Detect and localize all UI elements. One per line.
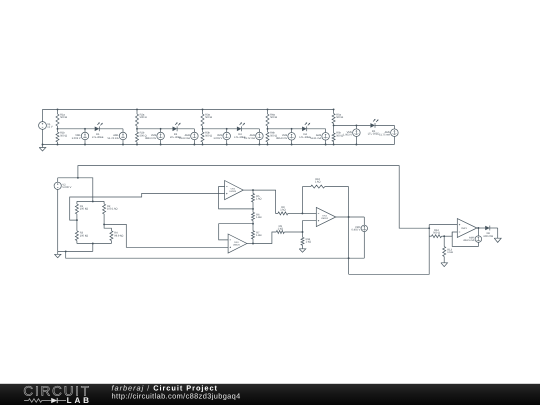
wire OA4 feedback up — [301, 187, 303, 214]
voltmeter VM4 — [291, 129, 293, 133]
resistor R5 — [252, 190, 254, 193]
resistor R4b — [267, 129, 269, 132]
svg-text:LM324: LM324 — [321, 217, 328, 220]
voltage source V1 — [42, 109, 44, 121]
node chain mid1 — [252, 208, 254, 210]
svg-text:CMP1: CMP1 — [461, 227, 468, 230]
svg-text:1 kΩ: 1 kΩ — [256, 234, 261, 237]
svg-text:454.5 mA: 454.5 mA — [463, 239, 474, 242]
diode D6 — [485, 226, 490, 231]
node bridge top — [92, 200, 94, 202]
svg-text:LAB: LAB — [67, 396, 92, 405]
svg-text:LM324: LM324 — [233, 244, 240, 247]
wire bridge bottom bar — [77, 243, 112, 245]
svg-text:12 V: 12 V — [47, 126, 53, 129]
wire chain top to R8 — [253, 190, 278, 213]
resistor R9 — [276, 231, 284, 234]
op-amp OA2 — [225, 181, 244, 200]
wire OA2 feedback — [219, 187, 253, 209]
svg-text:500 Ω: 500 Ω — [433, 232, 440, 235]
svg-text:1 kΩ: 1 kΩ — [447, 251, 452, 254]
svg-text:OA3: OA3 — [234, 241, 239, 244]
wire lower link to comparator — [349, 225, 430, 275]
svg-text:0.455 V: 0.455 V — [351, 229, 360, 232]
svg-text:LTL-30EE: LTL-30EE — [368, 132, 380, 135]
wire bottom rail — [43, 144, 395, 146]
logo circuit line with resistor and diode — [24, 399, 51, 403]
node bridge bottom — [92, 243, 94, 245]
svg-text:1 kΩ: 1 kΩ — [306, 241, 311, 244]
ammeter AM2 — [193, 129, 195, 133]
wire bridge right to op-amp OA3 — [104, 224, 228, 247]
svg-text:600 mW: 600 mW — [483, 235, 493, 238]
svg-text:LM324: LM324 — [229, 190, 236, 193]
svg-text:1 kΩ: 1 kΩ — [315, 181, 320, 184]
svg-text:5.000 V: 5.000 V — [62, 186, 71, 189]
voltage source V2 — [54, 182, 61, 189]
node chain top — [252, 189, 254, 191]
node OA4 plus — [302, 231, 304, 233]
resistor R2 — [103, 201, 105, 204]
voltmeter VM2 — [160, 129, 162, 133]
ammeter AM4 — [325, 129, 327, 133]
svg-text:1 kΩ: 1 kΩ — [256, 197, 261, 200]
svg-text:1 kΩ: 1 kΩ — [278, 227, 283, 230]
node bridge left — [76, 219, 78, 221]
ground — [302, 245, 304, 249]
node ground bus — [65, 250, 67, 252]
svg-text:500 Ω: 500 Ω — [140, 116, 147, 119]
node bridge right — [103, 223, 105, 225]
ammeter AM5 — [393, 125, 395, 129]
svg-text:51.75 mA: 51.75 mA — [379, 134, 390, 137]
wire top rail — [43, 108, 334, 110]
LED D1 — [95, 127, 100, 132]
wire bridge bottom drop — [92, 244, 94, 252]
svg-text:1 kΩ: 1 kΩ — [280, 209, 285, 212]
wire CMP1 minus — [452, 232, 457, 236]
ground — [497, 228, 499, 238]
resistor R12 — [432, 235, 442, 238]
node divider — [443, 235, 445, 237]
svg-text:500 Ω: 500 Ω — [205, 134, 212, 137]
resistor R4 — [104, 224, 111, 230]
wire to OA4 minus — [302, 212, 316, 214]
resistor R1b — [57, 129, 59, 132]
svg-text:LTL-30EE: LTL-30EE — [92, 136, 104, 139]
svg-text:51.74 mA: 51.74 mA — [107, 137, 118, 140]
node column 3 — [202, 108, 204, 110]
svg-text:51.63 mA: 51.63 mA — [179, 137, 190, 140]
ground — [42, 144, 44, 146]
node output — [348, 216, 350, 218]
resistor R8 — [278, 212, 288, 215]
wire LED row section 4 — [268, 128, 303, 130]
resistor R3b — [202, 129, 204, 132]
svg-text:OA2: OA2 — [231, 188, 236, 191]
svg-text:500 Ω: 500 Ω — [60, 134, 67, 137]
svg-text:http://circuitlab.com/c88zd3ju: http://circuitlab.com/c88zd3jubgaq4 — [112, 391, 241, 400]
svg-text:OA4: OA4 — [322, 214, 327, 217]
svg-text:100 kΩ: 100 kΩ — [80, 208, 88, 211]
resistor R1a — [57, 109, 59, 114]
ground — [57, 251, 59, 254]
voltmeter VM6 — [363, 217, 365, 225]
wire OA2 output — [243, 189, 253, 191]
node comparator feed — [428, 227, 430, 229]
resistor R3a — [202, 109, 204, 114]
svg-text:1.003 V: 1.003 V — [343, 134, 352, 137]
resistor R4a — [267, 109, 269, 114]
node top feed — [77, 177, 79, 179]
voltmeter VM1 — [84, 129, 86, 133]
resistor R5b — [333, 125, 335, 133]
op-amp OA3 — [228, 234, 247, 253]
svg-text:100.1 kΩ: 100.1 kΩ — [107, 208, 118, 211]
voltmeter VM5 — [355, 125, 357, 129]
wire V2 top to bridge — [58, 178, 93, 202]
node chain bottom — [252, 243, 254, 245]
wire feedback right vertical — [348, 187, 350, 275]
svg-text:1 kΩ: 1 kΩ — [256, 216, 261, 219]
resistor R1 — [76, 201, 78, 204]
resistor R10 — [311, 185, 325, 188]
node output ground bus — [348, 257, 350, 259]
svg-text:1.002 V: 1.002 V — [72, 137, 81, 140]
resistor R5a — [333, 109, 335, 113]
wire bridge bottom to ground — [58, 250, 93, 252]
node chain mid2 — [252, 223, 254, 225]
node OA4 minus — [301, 212, 303, 214]
svg-text:500 Ω: 500 Ω — [60, 116, 67, 119]
wire to R12 — [429, 235, 431, 237]
wire LED row section 3 — [203, 128, 237, 130]
resistor R6 — [252, 209, 254, 212]
node column 2 — [136, 108, 138, 110]
wire OA3 feedback — [219, 224, 253, 240]
op-amp OA4 — [316, 207, 336, 226]
svg-text:99.9 kΩ: 99.9 kΩ — [114, 234, 123, 237]
svg-text:1.001 V: 1.001 V — [213, 137, 222, 140]
node column 5 — [333, 108, 335, 110]
wire OA3 output to R9 — [247, 243, 253, 245]
svg-text:500 Ω: 500 Ω — [270, 116, 277, 119]
resistor R13 — [443, 236, 445, 246]
wire OA4 plus — [303, 221, 317, 232]
wire long top bus — [78, 166, 429, 229]
resistor R11 — [302, 232, 304, 237]
voltmeter VM3 — [226, 129, 228, 133]
wire LED row section 5 — [334, 124, 371, 126]
svg-text:51.72 mA: 51.72 mA — [244, 137, 255, 140]
wire ground bus — [66, 251, 365, 258]
resistor R2b — [136, 129, 138, 132]
wire CMP1 output — [477, 227, 487, 229]
wire bridge left to op-amp OA2 — [70, 193, 225, 220]
ammeter AM3 — [258, 129, 260, 133]
resistor R7 — [252, 224, 254, 231]
wire LED row section 2 — [137, 128, 173, 130]
wire OA4 output — [336, 216, 365, 218]
svg-text:500 Ω: 500 Ω — [205, 116, 212, 119]
svg-text:500 Ω: 500 Ω — [336, 116, 343, 119]
ammeter AM1 — [122, 129, 124, 133]
node column 4 — [267, 108, 269, 110]
wire CMP1 plus — [429, 224, 457, 226]
wire LED row section 1 — [58, 128, 95, 130]
LED D3 — [237, 127, 242, 132]
resistor R3 — [76, 220, 78, 231]
LED D5 — [370, 123, 375, 128]
wire V2 bottom — [57, 189, 59, 251]
svg-text:998.3 mV: 998.3 mV — [145, 137, 156, 140]
resistor R2a — [136, 109, 138, 114]
ammeter AM6 — [477, 228, 479, 236]
node CMP1 output — [477, 227, 479, 229]
LED D4 — [302, 127, 307, 132]
svg-text:996.8 mV: 996.8 mV — [276, 137, 287, 140]
LED D2 — [173, 127, 178, 132]
wire bridge top bar — [77, 200, 104, 202]
ground — [443, 257, 445, 263]
svg-text:51.61 mA: 51.61 mA — [310, 137, 321, 140]
wire diode to ground — [490, 227, 498, 229]
svg-text:100 kΩ: 100 kΩ — [80, 234, 88, 237]
op-amp CMP1 — [457, 219, 477, 238]
node column 1 — [57, 108, 59, 110]
